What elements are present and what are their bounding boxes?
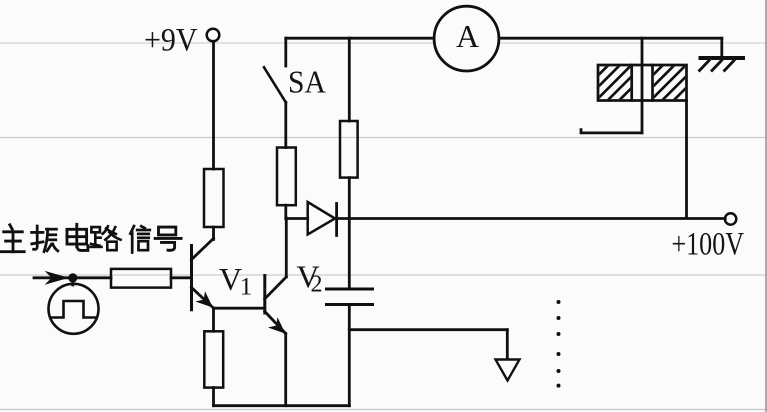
transistor V2 emitter arrow bbox=[270, 319, 284, 332]
svg-text:A: A bbox=[456, 18, 479, 54]
transistor V1 base bar bbox=[190, 246, 193, 310]
wire top rail corner to switch bbox=[284, 38, 287, 66]
wire R1 to V1 collector bbox=[212, 227, 215, 240]
bottom rail bbox=[214, 404, 350, 407]
wire V1 emitter junction bbox=[214, 307, 265, 310]
terminal +9V bbox=[207, 29, 220, 42]
wire +9V down to R1 bbox=[212, 42, 215, 170]
gap arrow bbox=[496, 360, 520, 381]
resistor R3 bbox=[204, 331, 223, 387]
transistor V1 emitter bbox=[192, 288, 214, 308]
wire resistor R2 to V1 base bbox=[171, 276, 192, 279]
wire top rail to R5 bbox=[348, 38, 351, 121]
wire R5 down to capacitor bbox=[348, 178, 351, 288]
wire rail to ground bbox=[720, 38, 723, 56]
ground hatch 2 bbox=[712, 61, 722, 71]
label chinese 信 bbox=[130, 226, 150, 253]
diode VD cathode bar bbox=[335, 204, 338, 236]
transistor V2 collector diagonal bbox=[265, 277, 287, 299]
ground hatch 1 bbox=[700, 61, 710, 71]
resistor R5 bbox=[340, 121, 358, 178]
switch SA blade bbox=[264, 67, 286, 102]
label chinese 路 bbox=[91, 226, 121, 250]
svg-text:V: V bbox=[219, 261, 242, 297]
transistor V2 collector wire bbox=[285, 218, 288, 277]
capacitor C bottom plate bbox=[327, 303, 373, 306]
wire workpiece to +100V line bbox=[685, 101, 688, 219]
wire R4 to diode node bbox=[284, 205, 287, 218]
wire switch to R4 bbox=[284, 102, 287, 147]
wire dot to pulse source bbox=[71, 278, 74, 285]
resistor R2 bbox=[111, 269, 171, 288]
svg-text:+9V: +9V bbox=[144, 23, 198, 59]
wire rail to electrode gap bbox=[641, 38, 644, 133]
resistor R4 bbox=[277, 148, 296, 206]
wire emitter down to R3 bbox=[212, 308, 215, 331]
label chinese 主 bbox=[1, 225, 24, 252]
ground bar bbox=[701, 56, 744, 60]
resistor R1 bbox=[204, 169, 224, 227]
transistor V2 base bar bbox=[263, 276, 266, 314]
top rail right segment bbox=[500, 37, 722, 40]
terminal +100V bbox=[725, 213, 736, 224]
scan artifact line 2 bbox=[0, 137, 767, 139]
wire R3 to bottom rail bbox=[212, 388, 215, 406]
diode VD triangle bbox=[308, 202, 335, 235]
transistor V1 collector bbox=[192, 239, 214, 260]
svg-text:2: 2 bbox=[311, 272, 323, 298]
workpiece divider right bbox=[651, 65, 654, 101]
pulse waveform glyph bbox=[51, 301, 97, 318]
wire node to diode anode bbox=[286, 217, 308, 220]
pulse source G1 bbox=[49, 284, 99, 334]
wire V2 emitter to bottom rail bbox=[284, 334, 287, 406]
scan artifact line 1 bbox=[0, 42, 767, 44]
workpiece hatch right bbox=[622, 60, 714, 106]
scan artifact vertical edge bbox=[765, 0, 767, 412]
workpiece divider left bbox=[630, 65, 633, 101]
svg-text:1: 1 bbox=[240, 274, 253, 301]
wire gap branch vertical bbox=[506, 330, 509, 360]
transistor V1 emitter arrow bbox=[198, 293, 212, 306]
top rail left segment bbox=[286, 37, 434, 40]
transistor V2 emitter bbox=[265, 312, 286, 334]
capacitor C top plate bbox=[327, 288, 373, 291]
wire diode to +100V terminal bbox=[337, 217, 726, 220]
workpiece outer rect bbox=[598, 65, 687, 101]
svg-text:+100V: +100V bbox=[672, 227, 745, 263]
wire capacitor to bottom rail bbox=[348, 305, 351, 406]
label chinese 电 bbox=[67, 224, 88, 250]
junction dot bbox=[68, 273, 77, 282]
workpiece hatch left bbox=[568, 60, 660, 106]
input arrowhead bbox=[47, 272, 67, 283]
scan artifact line 3 bbox=[0, 274, 767, 276]
scan artifact line 4 bbox=[0, 409, 767, 411]
wire gap branch horizontal bbox=[349, 328, 507, 331]
ammeter PA circle bbox=[434, 6, 499, 71]
label chinese 号 bbox=[155, 227, 181, 250]
svg-text:SA: SA bbox=[288, 64, 326, 100]
input wire bbox=[34, 276, 111, 279]
label chinese 振 bbox=[32, 226, 58, 252]
dotted continuation bbox=[557, 300, 561, 388]
electrode holder L bbox=[581, 130, 642, 133]
ground hatch 3 bbox=[725, 61, 735, 71]
